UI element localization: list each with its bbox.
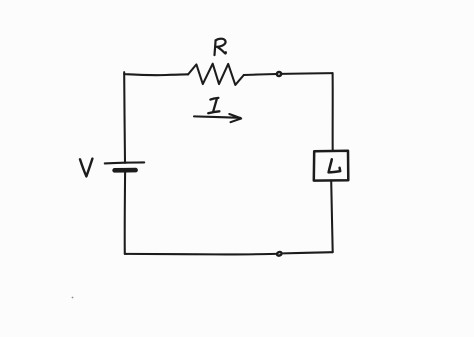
wire right side lower (L box to bottom corner) — [331, 181, 333, 253]
battery V1 long plate — [105, 162, 144, 163]
inductor L1 letter L — [329, 159, 341, 172]
node A (top junction dot) — [276, 71, 281, 76]
wire bottom (right corner to bottom junction) — [284, 252, 333, 253]
wire bottom (junction to bottom-left corner) — [125, 253, 276, 256]
resistor R1 zigzag — [188, 64, 244, 85]
wire left side upper (battery up to top-left corner) — [123, 74, 126, 163]
wire top-left segment — [124, 72, 188, 75]
battery V1 short thick plate — [115, 168, 136, 173]
inductor L1 box — [314, 151, 349, 181]
paper speck — [72, 297, 74, 299]
current arrowhead — [229, 114, 241, 122]
label R — [215, 39, 226, 55]
wire resistor to top-right corner — [244, 73, 333, 75]
wire left side lower (bottom corner up to battery) — [124, 172, 126, 254]
label V — [80, 159, 92, 177]
node B (bottom junction dot) — [276, 251, 282, 256]
current arrow — [194, 116, 240, 117]
wire right side upper (corner to L box) — [332, 73, 334, 151]
label I (current) — [208, 98, 219, 113]
